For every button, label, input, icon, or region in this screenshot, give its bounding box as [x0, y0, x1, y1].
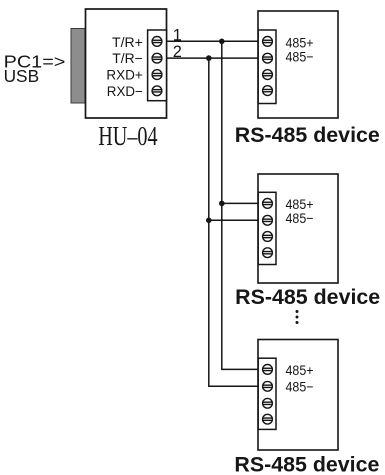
svg-text:HU–04: HU–04	[98, 121, 158, 151]
svg-text:RS-485 device: RS-485 device	[235, 124, 380, 147]
svg-text:2: 2	[173, 43, 182, 61]
svg-text:485−: 485−	[286, 211, 314, 227]
svg-text:485−: 485−	[286, 379, 314, 395]
svg-text:485+: 485+	[286, 363, 314, 379]
svg-text:RXD−: RXD−	[107, 84, 143, 99]
svg-text:1: 1	[173, 26, 182, 44]
svg-text:RS-485 device: RS-485 device	[235, 286, 380, 309]
svg-text:485−: 485−	[286, 50, 314, 66]
svg-text:USB: USB	[4, 66, 40, 86]
svg-text:T/R+: T/R+	[112, 35, 143, 50]
svg-text:RXD+: RXD+	[106, 67, 142, 82]
svg-text:RS-485 device: RS-485 device	[234, 454, 379, 475]
svg-text:T/R−: T/R−	[112, 51, 143, 66]
